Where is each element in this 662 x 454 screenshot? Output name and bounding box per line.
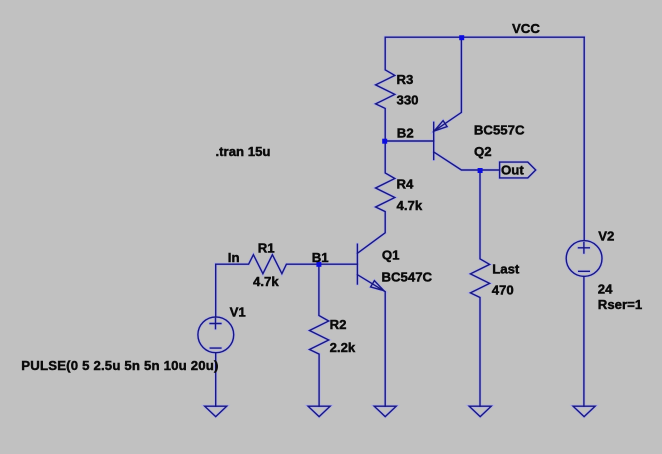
svg-text:470: 470 bbox=[492, 283, 514, 298]
svg-text:PULSE(0 5 2.5u 5n 5n 10u 20u): PULSE(0 5 2.5u 5n 5n 10u 20u) bbox=[21, 358, 218, 373]
svg-text:BC557C: BC557C bbox=[474, 122, 525, 137]
svg-text:B2: B2 bbox=[397, 126, 414, 141]
svg-text:330: 330 bbox=[397, 92, 419, 107]
svg-text:4.7k: 4.7k bbox=[253, 274, 279, 289]
svg-text:B1: B1 bbox=[312, 250, 329, 265]
svg-text:V2: V2 bbox=[598, 229, 614, 244]
svg-text:VCC: VCC bbox=[512, 21, 540, 36]
svg-text:Q1: Q1 bbox=[382, 247, 400, 262]
svg-text:4.7k: 4.7k bbox=[397, 198, 423, 213]
svg-text:Q2: Q2 bbox=[474, 144, 492, 159]
svg-text:Out: Out bbox=[501, 163, 524, 178]
svg-text:V1: V1 bbox=[230, 304, 246, 319]
svg-text:Rser=1: Rser=1 bbox=[598, 297, 642, 312]
svg-text:BC547C: BC547C bbox=[382, 270, 433, 285]
svg-text:.tran 15u: .tran 15u bbox=[216, 144, 271, 159]
svg-text:R4: R4 bbox=[397, 177, 415, 192]
svg-text:24: 24 bbox=[598, 281, 613, 296]
svg-text:R1: R1 bbox=[258, 241, 275, 256]
svg-text:2.2k: 2.2k bbox=[330, 340, 356, 355]
svg-text:R2: R2 bbox=[330, 317, 347, 332]
svg-text:Last: Last bbox=[492, 262, 520, 277]
svg-text:In: In bbox=[228, 250, 240, 265]
svg-text:R3: R3 bbox=[397, 72, 414, 87]
